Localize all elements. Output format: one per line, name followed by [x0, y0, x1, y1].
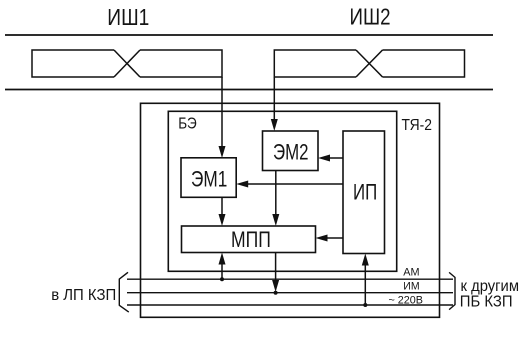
wire ИШ2 to ЭМ2	[271, 77, 278, 131]
bus line ИМ	[127, 292, 453, 294]
label К другим	[461, 278, 520, 295]
wire ~220В to ИП	[362, 254, 369, 308]
label ~ 220В	[389, 294, 424, 306]
wire МПП to ИМ	[272, 253, 279, 295]
wire ИП to МПП	[316, 235, 344, 242]
bus line ~220В	[127, 304, 453, 306]
svg-text:МПП: МПП	[231, 227, 271, 252]
wire АМ to МПП	[219, 253, 226, 282]
svg-text:~ 220В: ~ 220В	[389, 294, 424, 306]
svg-text:ПБ КЗП: ПБ КЗП	[460, 293, 513, 310]
label ИШ1	[107, 4, 149, 30]
rail line top	[5, 34, 493, 36]
label в ЛП КЗП	[51, 287, 116, 304]
wire ИП to ЭМ1	[236, 181, 343, 188]
svg-text:ИМ: ИМ	[403, 281, 419, 293]
block ЭМ2	[263, 131, 319, 171]
bus line АМ	[127, 278, 453, 280]
brace left	[119, 272, 129, 312]
rail line bottom	[5, 89, 493, 91]
svg-text:ИШ2: ИШ2	[350, 4, 391, 30]
block МПП	[182, 226, 316, 253]
svg-text:АМ: АМ	[403, 267, 419, 279]
block ЭМ1	[181, 158, 236, 198]
label АМ	[403, 267, 419, 279]
svg-text:БЭ: БЭ	[178, 115, 197, 132]
label ИМ	[403, 281, 419, 293]
wire ЭМ1 to МПП	[219, 197, 226, 226]
wire ЭМ2 to МПП	[272, 171, 279, 227]
svg-text:в ЛП КЗП: в ЛП КЗП	[51, 287, 116, 304]
block БЭ inner box	[168, 111, 396, 271]
svg-text:ИШ1: ИШ1	[107, 4, 149, 30]
insulated joint ИШ1 (bowtie)	[32, 50, 222, 77]
block ИП	[343, 131, 385, 254]
svg-text:ИП: ИП	[353, 179, 377, 204]
svg-text:ЭМ1: ЭМ1	[191, 167, 227, 192]
wire ИШ1 to ЭМ1	[219, 77, 226, 158]
svg-text:ТЯ-2: ТЯ-2	[402, 117, 433, 134]
label ПБ КЗП	[460, 293, 513, 310]
insulated joint ИШ2 (bowtie)	[274, 50, 464, 77]
brace right	[449, 272, 455, 309]
svg-text:ЭМ2: ЭМ2	[273, 139, 309, 164]
wire ИП to ЭМ2	[318, 155, 343, 162]
label ИШ2	[350, 4, 391, 30]
block ТЯ-2 outer box	[141, 103, 440, 317]
